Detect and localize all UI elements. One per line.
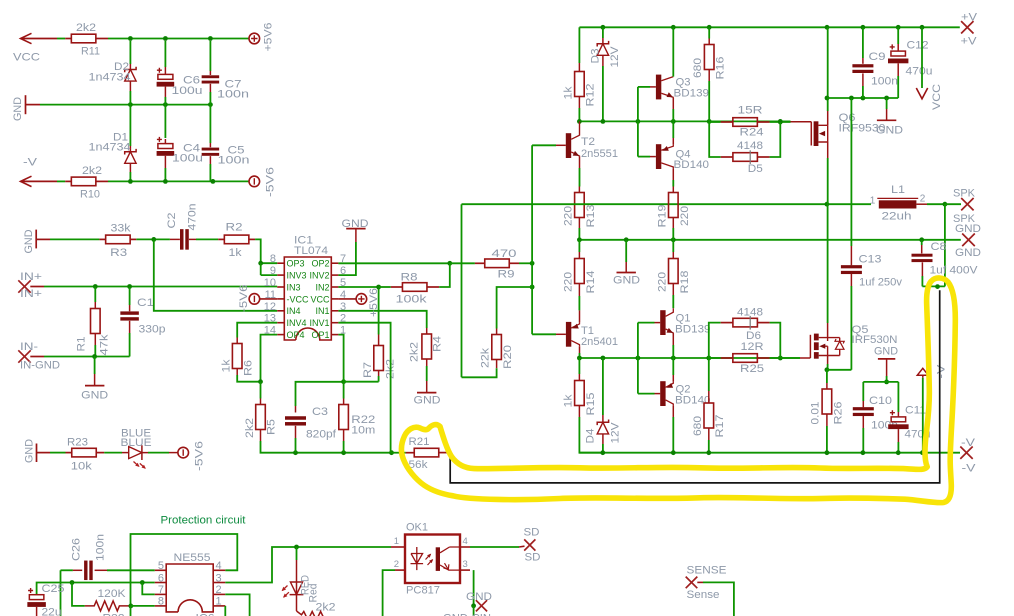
resistor R17 680 xyxy=(704,403,714,428)
pin 1 stub IC1 xyxy=(331,334,338,336)
wire bias row xyxy=(579,357,800,359)
svg-text:C1: C1 xyxy=(137,297,154,309)
svg-text:IN2: IN2 xyxy=(315,282,329,292)
label VCC xyxy=(13,52,40,64)
wire R16 bottom xyxy=(708,81,710,121)
capacitor C10 100n xyxy=(853,407,874,416)
port GND bottom xyxy=(476,600,487,611)
label R10 name xyxy=(80,189,100,201)
lead C1 top xyxy=(129,305,131,311)
wire driver rail xyxy=(579,120,790,122)
lead R17 bottom xyxy=(708,428,710,440)
junction IN2 R8 R7 xyxy=(376,285,381,290)
wire spk rail xyxy=(462,203,872,205)
lead Q3 base xyxy=(650,86,656,88)
label R11 name xyxy=(81,46,100,58)
pin 3 stub OK1 xyxy=(460,569,470,571)
label C11 xyxy=(905,405,926,417)
pin name IN3 IC1 xyxy=(287,282,301,292)
svg-text:Sense: Sense xyxy=(687,589,720,601)
label OK1 xyxy=(406,522,428,534)
lead R19 top xyxy=(672,187,674,193)
resistor R22 10m xyxy=(339,405,349,430)
svg-text:C13: C13 xyxy=(859,254,882,266)
wire D5 left xyxy=(709,121,721,157)
junction R24 D5 gate xyxy=(778,120,783,125)
lead gnd C10 stem xyxy=(886,359,888,376)
label R5 name xyxy=(266,419,278,435)
lead R18 bottom xyxy=(672,284,674,296)
resistor R12 1k xyxy=(575,72,585,97)
label L1 xyxy=(891,184,905,196)
label GND right below xyxy=(955,247,981,259)
wire R22 bottom xyxy=(343,441,345,453)
pin number 3 IC1 xyxy=(340,301,346,313)
label Q6 IRF9530 xyxy=(839,123,886,135)
junction brow Q12base xyxy=(636,356,641,361)
lead R26 bottom xyxy=(826,414,828,426)
ground GND pin6 xyxy=(346,228,365,230)
lead C5 bottom xyxy=(209,156,211,164)
lead C4 bottom xyxy=(164,156,166,168)
wire RED led top xyxy=(296,547,298,560)
supply +5V6 pin4 xyxy=(356,294,367,305)
wire C2-node to IN4 pin12 xyxy=(154,239,277,310)
pin name OP4 IC1 xyxy=(287,330,305,340)
label C11 value 470u xyxy=(905,429,931,441)
label R19 name xyxy=(657,205,669,228)
wire pin3 IN1 to R4 xyxy=(338,311,426,328)
lead Q2 base xyxy=(655,393,661,395)
label R10 value 2k2 xyxy=(82,165,102,177)
label -V left xyxy=(23,157,38,169)
junction brow D4 xyxy=(601,356,606,361)
lead R18 top xyxy=(672,252,674,259)
junction -v C11 xyxy=(896,450,901,455)
label C4 value xyxy=(172,153,203,165)
lead gnd stem pin6 xyxy=(355,229,357,242)
lead Q5 drain xyxy=(827,323,829,338)
lead R19 bottom xyxy=(672,218,674,229)
wire VCC rail +5V6 xyxy=(21,38,58,40)
svg-text:R3: R3 xyxy=(110,247,127,259)
pin number 1 OK1 xyxy=(394,536,399,547)
svg-text:-V: -V xyxy=(23,157,38,169)
wire 120K left xyxy=(72,583,85,606)
junction fb C3 xyxy=(293,450,298,455)
lead T2 base xyxy=(556,144,566,146)
label R12 value 1k xyxy=(563,86,575,100)
supply +5V6 top xyxy=(249,33,260,44)
label SD below xyxy=(525,552,541,564)
wire gndsym top xyxy=(886,98,888,109)
junction T-col R9 xyxy=(530,261,535,266)
label Q5 xyxy=(852,324,869,336)
lead C6 bottom xyxy=(164,87,166,97)
lead R3 right xyxy=(130,238,136,240)
lead R11 left xyxy=(65,38,71,40)
pin number 12 IC1 xyxy=(264,301,276,313)
net arrow VCC down xyxy=(916,88,927,99)
svg-text:1uf 250v: 1uf 250v xyxy=(859,277,903,289)
ground GND mid rail xyxy=(617,272,636,274)
wire C25 top xyxy=(37,583,155,595)
label C1 xyxy=(137,297,154,309)
wire C11 bottom xyxy=(897,442,899,453)
svg-text:220: 220 xyxy=(657,272,669,292)
label C25 value 22u xyxy=(42,607,62,616)
wire R25 right xyxy=(770,357,781,359)
lead R17 top xyxy=(708,391,710,403)
wire pin4 VCC stub xyxy=(338,298,356,300)
pin name INV2 IC1 xyxy=(309,271,329,281)
svg-text:2: 2 xyxy=(920,194,926,205)
label SD above xyxy=(524,527,540,539)
svg-text:+5V6: +5V6 xyxy=(368,288,380,317)
pin 7 stub IC1 xyxy=(331,262,338,264)
label Protection circuit xyxy=(161,515,246,527)
label R7 name xyxy=(362,362,374,378)
label -5V6 blue xyxy=(194,441,206,471)
label L1 pin1 xyxy=(870,196,876,207)
wire D1 bottom xyxy=(129,172,131,181)
label IN+ above xyxy=(20,271,42,283)
label C9 xyxy=(869,51,886,63)
wire R3 to C2 xyxy=(136,238,170,240)
lead R15 bottom xyxy=(578,406,580,418)
wire R5 top xyxy=(260,382,262,399)
lead R25 right xyxy=(757,357,769,359)
label Q3 xyxy=(676,77,691,89)
svg-text:100n: 100n xyxy=(95,534,107,561)
pin name INV3 IC1 xyxy=(287,271,307,281)
label D4 value 12V xyxy=(610,422,622,444)
label R1 value 47k xyxy=(99,334,111,356)
label Q1 xyxy=(676,313,691,325)
junction Q6 gndwire xyxy=(825,96,830,101)
junction spk Q6col xyxy=(825,202,830,207)
svg-text:C8: C8 xyxy=(931,241,947,253)
wire OK1 pin2 down xyxy=(383,570,395,616)
resistor R25 12R xyxy=(733,354,758,363)
lead C8 bottom xyxy=(921,262,923,276)
wire L1 to spk xyxy=(927,203,945,205)
lead R22 bottom xyxy=(343,430,345,442)
lead R1 gnd stem xyxy=(94,374,96,386)
wire C9 bottom xyxy=(862,86,864,98)
svg-text:IN-GND: IN-GND xyxy=(20,360,60,372)
port +V xyxy=(961,21,973,33)
wire GND row xyxy=(40,104,210,106)
label R16 name xyxy=(715,57,727,80)
pin 1 stub NE555 xyxy=(213,605,225,607)
svg-text:SPK: SPK xyxy=(953,188,976,200)
wire VCC arrow xyxy=(921,27,923,88)
wire R19 bottom xyxy=(672,228,674,240)
label R5 value 2k2 xyxy=(244,418,256,438)
junction rail C12 xyxy=(896,25,901,30)
svg-text:OP4: OP4 xyxy=(287,330,305,340)
svg-text:100u: 100u xyxy=(172,153,203,165)
wire IN+ stub xyxy=(30,286,44,288)
label R7 value 2k2 xyxy=(384,359,396,379)
junction rail VCCarrow xyxy=(920,25,925,30)
svg-text:R1: R1 xyxy=(76,337,88,352)
label R13 name xyxy=(585,205,597,228)
lead C25 bottom xyxy=(36,607,38,616)
wire Q4 base xyxy=(638,156,650,158)
wire T2 to R13 xyxy=(579,168,581,187)
lead C4 top xyxy=(164,139,166,144)
wire R17 top xyxy=(708,358,710,391)
svg-text:+V: +V xyxy=(961,12,978,24)
lead R20 bottom xyxy=(496,360,498,369)
wire LED to -5v6 xyxy=(148,452,169,454)
svg-text:470: 470 xyxy=(492,248,517,260)
svg-text:GND: GND xyxy=(955,247,981,259)
junction out RED led xyxy=(294,545,299,550)
label GND R4 xyxy=(414,395,441,407)
label L1 value 22uh xyxy=(882,210,912,222)
lead R14 bottom xyxy=(578,284,580,297)
wire R24 right xyxy=(770,121,791,123)
wire decouple gnd xyxy=(827,97,898,99)
capacitor C6 100u xyxy=(157,68,175,87)
label Q3 BD139 xyxy=(674,88,710,100)
wire pin8 OP3 xyxy=(261,262,278,264)
junction rail Q6col xyxy=(825,25,830,30)
svg-text:470n: 470n xyxy=(187,204,199,231)
lead R1 top xyxy=(94,302,96,309)
svg-text:-5V6: -5V6 xyxy=(194,441,206,471)
lead R6 top xyxy=(236,338,238,344)
label R6 name xyxy=(243,360,255,376)
wire gndsym mid xyxy=(625,240,627,262)
svg-text:C9: C9 xyxy=(869,51,886,63)
lead R23 left xyxy=(66,452,72,454)
lead C11 top xyxy=(897,412,899,417)
svg-text:D4: D4 xyxy=(585,429,597,444)
junction grail gndsym xyxy=(624,237,629,242)
resistor R11 xyxy=(71,34,96,43)
pin 1 stub OK1 xyxy=(391,546,405,548)
wire OP2node to R9 xyxy=(450,262,475,264)
wire C7 top xyxy=(209,41,211,71)
wire T2 base xyxy=(532,144,556,146)
wire T1 coll to row xyxy=(579,353,581,358)
label R8 value 100k xyxy=(396,294,428,306)
wire pin7 jog xyxy=(142,583,155,595)
svg-text:D5: D5 xyxy=(748,163,763,175)
wire R22 row to R7 xyxy=(344,381,379,383)
resistor R16 680 xyxy=(704,45,714,70)
resistor R4 2k2 xyxy=(422,334,432,359)
label IN-GND below xyxy=(20,360,60,372)
wire C6 top xyxy=(164,41,166,67)
label GND left top xyxy=(12,97,24,121)
svg-text:2k2: 2k2 xyxy=(244,418,256,438)
wire C26 to pin5 xyxy=(107,569,155,571)
svg-text:4: 4 xyxy=(216,560,222,572)
net arrow -V xyxy=(21,176,32,186)
wire IN- stub xyxy=(30,356,44,358)
svg-text:0.01: 0.01 xyxy=(810,402,822,425)
svg-text:C26: C26 xyxy=(71,538,83,561)
junction -v R17 xyxy=(706,450,711,455)
label C5 value xyxy=(218,155,250,167)
wire Q5 source xyxy=(827,364,829,370)
resistor R5 2k2 xyxy=(256,405,266,430)
junction -v C5 xyxy=(211,179,216,184)
svg-text:3: 3 xyxy=(216,572,222,584)
wire pin9 INV3 xyxy=(261,274,278,276)
LED inside OK1 xyxy=(411,547,424,570)
svg-text:2k2: 2k2 xyxy=(82,165,102,177)
label R22 name xyxy=(351,414,375,426)
svg-text:INV4: INV4 xyxy=(287,318,307,328)
lead R7 top xyxy=(378,335,380,346)
pin 4 stub NE555 xyxy=(213,569,225,571)
label Q6 xyxy=(839,112,856,124)
lead R8 left xyxy=(391,286,403,288)
lead D2 bottom xyxy=(129,81,131,91)
svg-text:R5: R5 xyxy=(266,419,278,435)
lead L1 right xyxy=(916,203,927,205)
diode D1 1n4734 xyxy=(125,149,136,163)
ground GND C10 xyxy=(878,358,895,360)
label -V below right xyxy=(962,463,977,475)
wire spk column vertical xyxy=(461,204,463,377)
lead R13 top xyxy=(578,187,580,193)
lead C13 bottom xyxy=(850,274,852,286)
svg-text:C25: C25 xyxy=(42,583,65,595)
junction OP1 R22 R7 xyxy=(341,379,346,384)
resistor R7 2k2 xyxy=(374,346,384,371)
resistor 2k2 zigzag clipped xyxy=(297,611,325,616)
wire C10 C11 top row xyxy=(863,381,898,383)
wire D6 left xyxy=(709,323,721,358)
wire Q1 emit xyxy=(672,345,674,358)
wire Q6 source up xyxy=(827,27,829,111)
junction -v C10 xyxy=(861,450,866,455)
lead Q6 gate xyxy=(791,121,812,123)
junction drail R24 xyxy=(778,119,783,124)
label IC6 clipped xyxy=(196,613,215,616)
resistor R13 220 xyxy=(575,193,585,218)
label C6 xyxy=(183,75,200,87)
pin number 14 IC1 xyxy=(264,325,276,337)
LED BLUE xyxy=(122,445,148,469)
svg-text:GND: GND xyxy=(874,346,898,358)
svg-text:12V: 12V xyxy=(610,422,622,444)
lead R21 right xyxy=(439,452,450,454)
junction C8 node annotated xyxy=(935,284,940,289)
lead R4 top xyxy=(426,328,428,334)
pin 2 stub IC1 xyxy=(331,322,338,324)
svg-text:1: 1 xyxy=(216,596,222,608)
label SPK above xyxy=(953,188,976,200)
lead Q5 source xyxy=(827,356,829,365)
svg-text:R18: R18 xyxy=(679,271,691,294)
svg-text:2k2: 2k2 xyxy=(316,602,336,614)
label R20 value 22k xyxy=(480,347,492,368)
svg-text:100u: 100u xyxy=(172,85,203,97)
wire pin8-pin9 riser xyxy=(260,263,262,275)
svg-text:15R: 15R xyxy=(738,105,763,117)
lead R13 bottom xyxy=(578,218,580,229)
label NE555 xyxy=(174,552,211,564)
lead Q2 coll xyxy=(672,406,674,417)
svg-text:R21: R21 xyxy=(409,436,430,448)
svg-text:4148: 4148 xyxy=(737,306,763,318)
svg-text:220: 220 xyxy=(563,206,575,226)
svg-text:R2: R2 xyxy=(226,222,243,234)
lead C2 left xyxy=(170,238,180,240)
svg-text:BD140: BD140 xyxy=(675,395,711,407)
pin number 4 NE555 xyxy=(216,560,222,572)
wire Q2 to -v rail xyxy=(672,417,674,453)
junction T-col R20 xyxy=(530,285,535,290)
capacitor C7 100n xyxy=(202,75,220,83)
wire R16 top xyxy=(708,27,710,38)
resistor R19 220 xyxy=(669,193,679,218)
junction -v Q2 xyxy=(671,450,676,455)
wire -V to R10 xyxy=(57,180,65,182)
label Q4 BD140 xyxy=(674,159,710,171)
pin name IN2 IC1 xyxy=(315,282,329,292)
lead Q5 gate xyxy=(800,357,810,359)
lead D1 top xyxy=(129,146,131,152)
label Q4 xyxy=(676,149,691,161)
diode D5 4148 body xyxy=(733,150,758,164)
wire R14 to T1 xyxy=(578,296,580,310)
port SENSE xyxy=(686,577,698,589)
inductor L1 22uh xyxy=(877,198,918,208)
svg-text:BD139: BD139 xyxy=(675,324,711,336)
svg-text:120K: 120K xyxy=(98,588,127,600)
lead D6 left xyxy=(721,322,733,324)
wire pin14 OP4 down xyxy=(261,335,278,382)
lead Q6 source xyxy=(827,111,829,125)
junction brow T1 xyxy=(577,356,582,361)
lead D4 bottom xyxy=(602,434,604,444)
lead Q4 base xyxy=(650,156,656,158)
wire C11 top xyxy=(897,382,899,412)
label R20 name xyxy=(502,345,514,369)
pin 6 stub NE555 xyxy=(155,582,166,584)
label +5V6 pin4 xyxy=(368,288,380,317)
junction pin6 120K xyxy=(70,580,75,585)
svg-text:-VCC: -VCC xyxy=(287,294,309,304)
svg-text:22u: 22u xyxy=(42,607,62,616)
svg-text:OK1: OK1 xyxy=(406,522,428,534)
svg-text:7: 7 xyxy=(158,584,164,596)
wire C5 top xyxy=(209,105,211,143)
wire IN+ row xyxy=(44,286,277,288)
svg-text:1uf 400V: 1uf 400V xyxy=(930,265,979,277)
svg-text:GND-CIN: GND-CIN xyxy=(443,613,491,616)
label R4 value 2k2 xyxy=(409,342,421,362)
label C26 xyxy=(71,538,83,561)
label C13 xyxy=(859,254,882,266)
svg-text:OP1: OP1 xyxy=(311,330,329,340)
label D2 xyxy=(114,61,129,73)
lead R16 top xyxy=(708,39,710,45)
junction drail R16 xyxy=(707,119,712,124)
junction R6 R5 OP4 xyxy=(258,379,263,384)
wire Q5 drain up xyxy=(827,204,829,323)
pin 3 stub NE555 xyxy=(213,582,225,584)
